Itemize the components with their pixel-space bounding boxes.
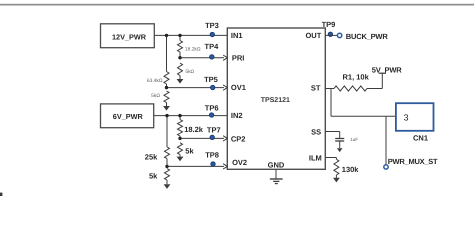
svg-text:5k: 5k [185, 147, 194, 156]
svg-text:TP4: TP4 [205, 42, 220, 51]
svg-text:5kΩ: 5kΩ [185, 69, 194, 75]
svg-text:6V_PWR: 6V_PWR [113, 112, 144, 121]
svg-text:TP3: TP3 [205, 21, 219, 30]
svg-text:3: 3 [404, 113, 409, 123]
svg-text:PWR_MUX_ST: PWR_MUX_ST [388, 157, 438, 166]
svg-text:ST: ST [311, 83, 321, 92]
svg-text:IN2: IN2 [231, 111, 243, 120]
svg-text:TP6: TP6 [205, 103, 219, 112]
svg-text:GND: GND [268, 160, 285, 169]
svg-text:PRI: PRI [232, 53, 245, 62]
svg-text:IN1: IN1 [231, 31, 243, 40]
svg-text:ILM: ILM [309, 153, 322, 162]
svg-text:R1, 10k: R1, 10k [343, 72, 370, 81]
svg-text:130k: 130k [342, 165, 360, 174]
svg-text:TP8: TP8 [205, 151, 219, 160]
svg-text:1uF: 1uF [350, 137, 358, 142]
svg-text:5k: 5k [149, 172, 158, 181]
svg-text:OV1: OV1 [231, 83, 246, 92]
svg-text:OUT: OUT [305, 31, 321, 40]
svg-text:18.2kΩ: 18.2kΩ [185, 46, 201, 52]
svg-text:25k: 25k [145, 152, 158, 161]
svg-text:TP7: TP7 [207, 125, 221, 134]
svg-text:SS: SS [311, 128, 321, 137]
svg-text:CN1: CN1 [413, 133, 428, 142]
svg-text:BUCK_PWR: BUCK_PWR [346, 32, 389, 41]
svg-text:TP9: TP9 [322, 20, 336, 29]
svg-text:5V_PWR: 5V_PWR [372, 65, 402, 74]
svg-text:TPS2121: TPS2121 [261, 97, 290, 104]
svg-text:5kΩ: 5kΩ [151, 93, 160, 99]
svg-text:63.4kΩ: 63.4kΩ [147, 78, 163, 84]
svg-text:12V_PWR: 12V_PWR [112, 32, 147, 41]
svg-text:CP2: CP2 [231, 134, 246, 143]
svg-text:OV2: OV2 [232, 158, 247, 167]
svg-text:TP5: TP5 [204, 75, 218, 84]
svg-text:18.2k: 18.2k [184, 125, 204, 134]
